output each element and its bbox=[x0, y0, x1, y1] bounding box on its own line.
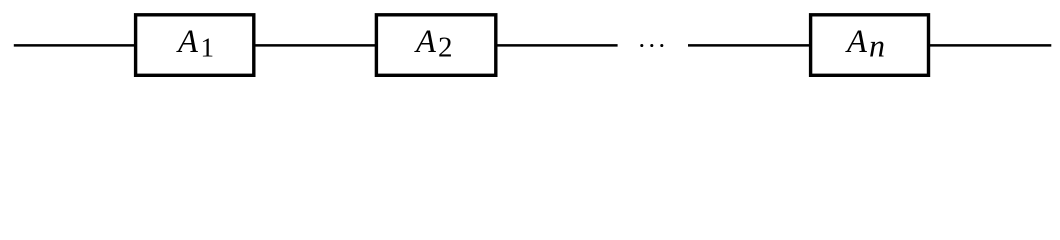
block A2 bbox=[376, 15, 495, 76]
wire bbox=[929, 44, 1051, 47]
wire bbox=[498, 44, 618, 47]
svg-text:A: A bbox=[414, 24, 436, 60]
svg-text:n: n bbox=[869, 28, 885, 64]
wire bbox=[255, 44, 376, 47]
svg-text:A: A bbox=[176, 24, 198, 60]
svg-text:1: 1 bbox=[201, 33, 215, 63]
block An bbox=[811, 15, 929, 76]
wire bbox=[688, 44, 810, 47]
wire bbox=[14, 44, 135, 47]
svg-text:A: A bbox=[845, 24, 867, 60]
block A1 bbox=[136, 15, 254, 76]
svg-text:2: 2 bbox=[438, 32, 453, 64]
ellipsis dots bbox=[640, 44, 643, 47]
